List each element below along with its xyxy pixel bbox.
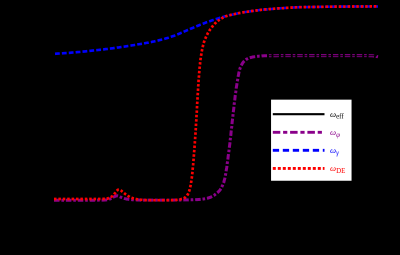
- legend sample line omega_gamma (blue dashed): [273, 149, 325, 152]
- curve omega_DE (red dotted dark-energy EoS): [54, 6, 378, 200]
- curve omega_gamma (blue dashed radiation EoS): [55, 7, 378, 54]
- curve omega_phi (purple dash-dot scalar field EoS): [54, 56, 378, 201]
- wire omega_eff black core over omega_phi plateau: [267, 55, 377, 57]
- legend sample line omega_eff (black solid): [273, 113, 325, 115]
- legend box: [270, 99, 352, 181]
- legend sample line omega_phi (purple dash-dot): [273, 131, 325, 134]
- legend sample line omega_DE (red dotted): [273, 167, 325, 170]
